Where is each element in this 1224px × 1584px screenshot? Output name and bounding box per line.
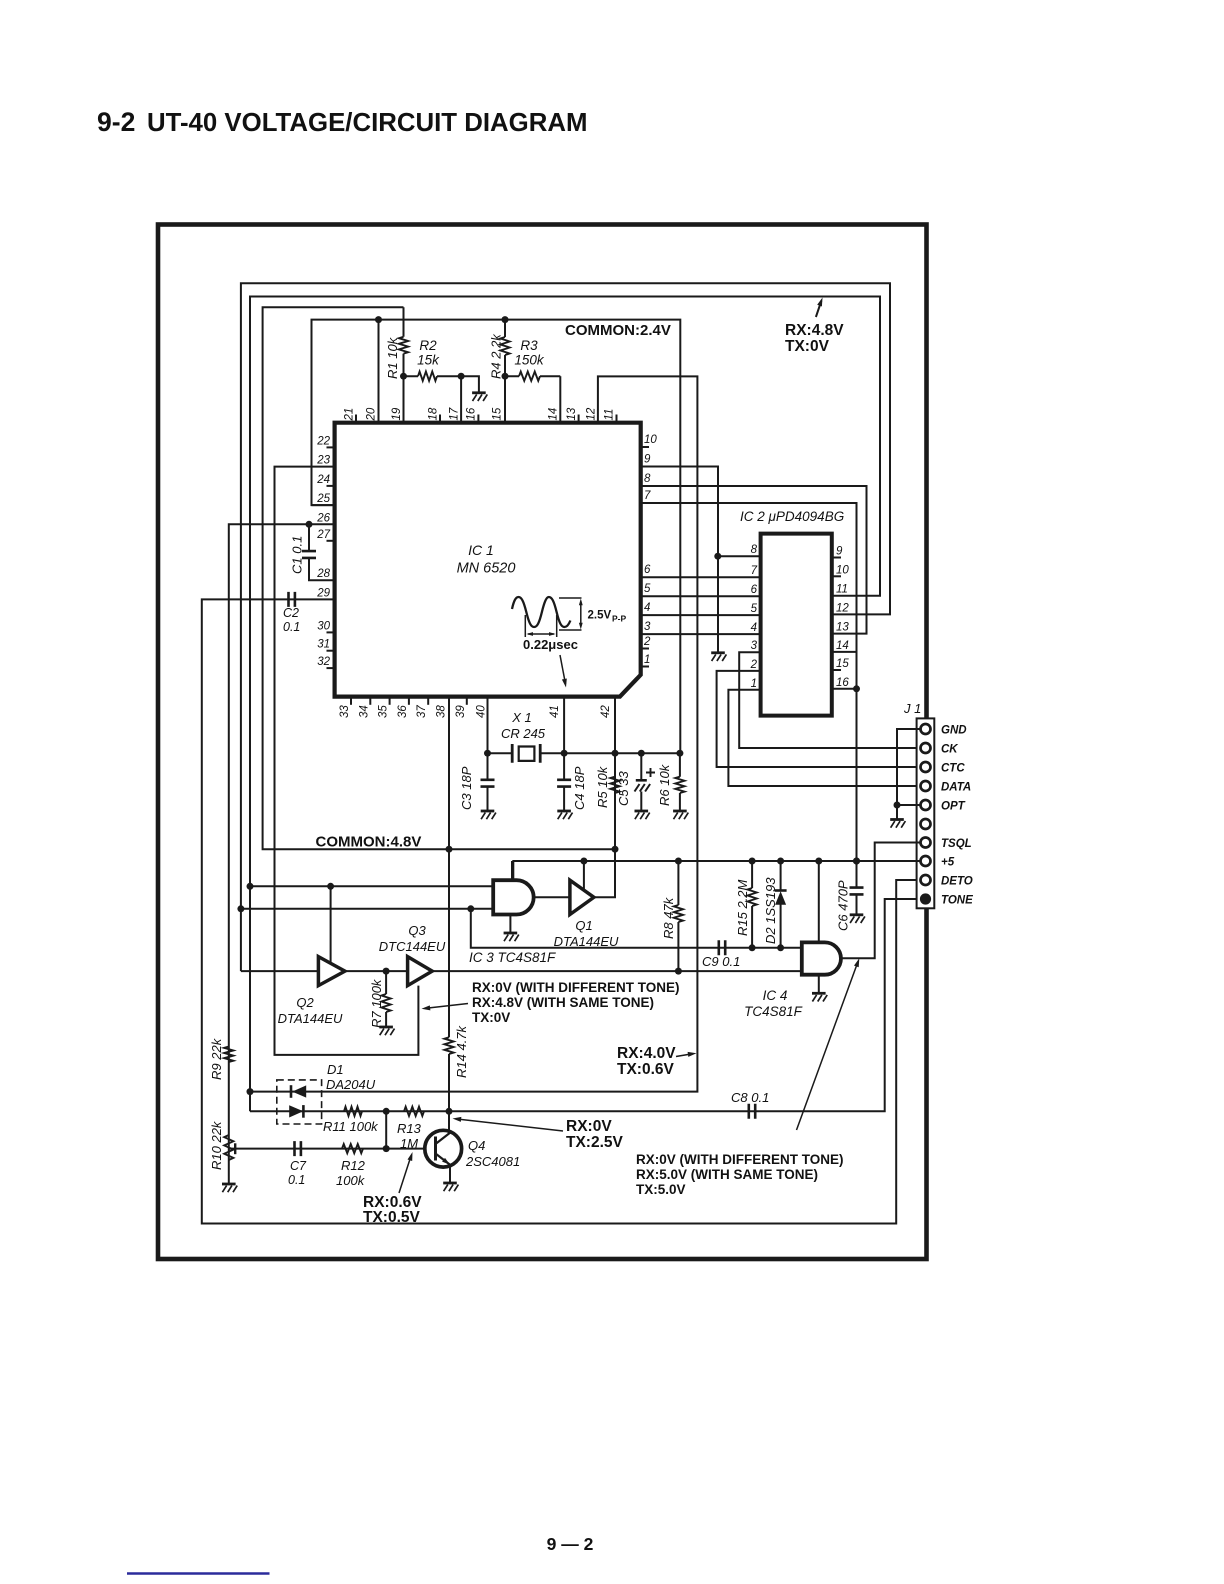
C7 value label xyxy=(288,1159,307,1187)
svg-text:12: 12 xyxy=(836,602,849,614)
junction IC2 pin16/+5 xyxy=(853,685,860,692)
svg-text:RX:5.0V (WITH SAME TONE): RX:5.0V (WITH SAME TONE) xyxy=(636,1167,818,1182)
svg-text:CTC: CTC xyxy=(941,763,965,775)
resistor R15 2.2M xyxy=(748,888,757,906)
svg-text:COMMON:4.8V: COMMON:4.8V xyxy=(316,834,422,851)
svg-text:C6 470P: C6 470P xyxy=(836,880,851,931)
J1 pin CK xyxy=(921,743,931,753)
connector J1 box xyxy=(917,718,935,908)
resistor R11 100k xyxy=(344,1107,362,1116)
wire TONE net (D1/R11/R13 line - C8 - J1 TONE) xyxy=(250,899,920,1111)
svg-text:9: 9 xyxy=(836,546,843,558)
J1 pin TSQL xyxy=(921,838,931,848)
pin 24 tick of IC1 xyxy=(327,485,335,487)
IC1 name label xyxy=(457,542,516,577)
J1 pin GND xyxy=(921,724,931,734)
svg-text:28: 28 xyxy=(316,568,330,580)
wire R5 body xyxy=(614,753,616,849)
junction D1 lines/loop2 xyxy=(247,1088,254,1095)
junction D2 top xyxy=(777,858,784,865)
svg-text:12: 12 xyxy=(586,407,598,420)
IC4 vdd stem xyxy=(818,861,820,942)
svg-text:DETO: DETO xyxy=(941,876,973,888)
svg-text:9-2: 9-2 xyxy=(97,107,135,137)
junction R4/R3/pin15 xyxy=(502,373,509,380)
junction R6 top xyxy=(676,750,683,757)
arrow from 0.22usec to pin41 xyxy=(560,655,566,684)
resistor R3 150k xyxy=(519,372,540,381)
Q4 name label xyxy=(465,1138,520,1169)
svg-text:C2: C2 xyxy=(283,606,299,620)
annotation bottom right tones xyxy=(636,1152,844,1197)
pin 42 wire of IC1 (common rail) to R5 and Q1 output xyxy=(614,697,616,850)
svg-text:6: 6 xyxy=(751,584,758,596)
IC2 pin 8 stub xyxy=(718,555,761,557)
svg-text:TX:0.5V: TX:0.5V xyxy=(363,1209,421,1226)
svg-text:2: 2 xyxy=(643,636,651,648)
svg-text:R10 22k: R10 22k xyxy=(209,1120,224,1170)
IC4 name label xyxy=(744,988,803,1019)
junction D2 bottom xyxy=(777,944,784,951)
IC2 pin 9 tick xyxy=(832,557,841,559)
R3 label xyxy=(514,338,545,368)
pin 38 wire of IC1 down to R14 xyxy=(448,697,450,850)
svg-text:4: 4 xyxy=(751,622,757,634)
svg-text:6: 6 xyxy=(644,564,651,576)
IC U2 (IC2 uPD4094BG) body xyxy=(761,534,832,716)
svg-text:11: 11 xyxy=(604,409,616,421)
junction R1/R2/pin19 xyxy=(400,373,407,380)
resistor R10 22k xyxy=(224,1135,233,1160)
svg-text:40: 40 xyxy=(476,705,488,718)
wire IC1-pin23 to Q3 emitter xyxy=(275,467,419,1055)
capacitor C8 0.1 xyxy=(749,1104,755,1119)
diode D2 1SS193 xyxy=(780,861,782,948)
IC2 pin 10 tick xyxy=(832,575,841,577)
svg-text:42: 42 xyxy=(600,705,612,718)
junction R15 top xyxy=(749,858,756,865)
svg-text:18: 18 xyxy=(428,407,440,420)
annotation RX:0V TX:2.5V xyxy=(566,1118,624,1151)
svg-text:C3 18P: C3 18P xyxy=(459,766,474,810)
diode pack D1 DA204U dashed box xyxy=(277,1080,322,1124)
svg-text:4: 4 xyxy=(644,602,650,614)
capacitor C4 18P xyxy=(557,780,571,787)
wire Q2 input line xyxy=(241,970,319,972)
page number 9-2 xyxy=(547,1534,594,1554)
wire net IC2-pin11 loop (top loop 2) to D1 lines xyxy=(250,297,880,1112)
ground at J1 OPT xyxy=(890,820,905,828)
svg-text:1M: 1M xyxy=(400,1136,418,1151)
svg-text:R7 100k: R7 100k xyxy=(369,978,384,1028)
wire R6 body xyxy=(679,753,681,810)
transistor Q4 2SC4081 xyxy=(425,1130,462,1167)
annotation RX:4.0V TX:0.6V xyxy=(617,1045,676,1078)
svg-text:IC 2 μPD4094BG: IC 2 μPD4094BG xyxy=(740,509,844,524)
junction rail2/loop2 xyxy=(247,883,254,890)
pin 35 tick of IC1 xyxy=(389,697,391,705)
wire X1 row xyxy=(488,752,565,754)
pin 4 wire of IC1 to IC2 pin5 xyxy=(641,614,761,616)
arrow to Q3 emitter box xyxy=(426,1004,468,1009)
capacitor C7 0.1 xyxy=(295,1141,301,1156)
svg-text:CK: CK xyxy=(941,744,958,756)
pin 10 tick of IC1 xyxy=(641,446,649,448)
svg-text:CR 245: CR 245 xyxy=(501,726,546,741)
svg-text:TC4S81F: TC4S81F xyxy=(744,1004,803,1019)
svg-text:MN 6520: MN 6520 xyxy=(457,561,516,577)
svg-text:15: 15 xyxy=(492,407,504,420)
pin 39 tick of IC1 xyxy=(466,697,468,705)
svg-text:20: 20 xyxy=(366,407,378,421)
annotation RX:0.6V TX:0.5V xyxy=(363,1194,422,1226)
wire IC1-pin12 net (loop 5) down to D1 line xyxy=(250,376,697,1091)
junction OPT/GND ground xyxy=(894,802,901,809)
svg-text:14: 14 xyxy=(548,408,560,421)
J1 pin DATA xyxy=(921,781,931,791)
junction R7 top xyxy=(383,968,390,975)
svg-text:31: 31 xyxy=(317,639,330,651)
svg-text:1: 1 xyxy=(644,654,650,666)
wire OPT ground stem xyxy=(896,805,898,819)
svg-text:29: 29 xyxy=(316,587,330,599)
svg-text:RX:0V (WITH DIFFERENT TONE): RX:0V (WITH DIFFERENT TONE) xyxy=(472,980,680,995)
junction IC4 vdd/+5 xyxy=(815,858,822,865)
arrow to Q4 collector junction xyxy=(457,1119,563,1131)
IC4 gnd stem xyxy=(818,975,820,993)
svg-text:DA204U: DA204U xyxy=(326,1077,376,1092)
wire rail to IC3 input A xyxy=(250,885,493,887)
svg-text:IC 3 TC4S81F: IC 3 TC4S81F xyxy=(469,950,556,965)
Q2 name label xyxy=(278,995,343,1026)
wire R15 body xyxy=(751,861,753,948)
junction R8 top xyxy=(675,858,682,865)
svg-text:0.22μsec: 0.22μsec xyxy=(523,637,578,652)
svg-text:R1 10k: R1 10k xyxy=(385,336,400,379)
C2 value label xyxy=(283,606,300,634)
wire J1 GND to ground/OPT xyxy=(897,729,921,805)
svg-text:C7: C7 xyxy=(290,1159,307,1173)
J1 pin TONE xyxy=(920,893,931,904)
junction C6 top xyxy=(853,858,860,865)
wire R4 body xyxy=(504,320,506,377)
svg-text:8: 8 xyxy=(751,544,758,556)
svg-text:R2: R2 xyxy=(419,338,437,353)
junction Q1 stem/+5 rail xyxy=(580,858,587,865)
svg-text:16: 16 xyxy=(466,407,478,420)
J1 pin NC xyxy=(921,819,931,829)
svg-text:RX:4.0V: RX:4.0V xyxy=(617,1045,676,1062)
svg-text:17: 17 xyxy=(449,407,461,420)
svg-text:DATA: DATA xyxy=(941,782,971,794)
junction rail3/loop1 xyxy=(237,905,244,912)
ground of R7 xyxy=(379,1027,394,1035)
Q1 name label xyxy=(554,918,619,949)
ground of Q4 xyxy=(443,1183,458,1191)
pin 13 tick of IC1 xyxy=(578,415,580,423)
svg-text:3: 3 xyxy=(751,640,758,652)
svg-text:DTC144EU: DTC144EU xyxy=(379,939,446,954)
wire IC2 pin16 stub xyxy=(832,688,857,690)
wire +5 rail J1 to IC3 xyxy=(513,861,921,880)
pin 32 tick of IC1 xyxy=(327,667,335,669)
junction rail3/C9 branch xyxy=(467,905,474,912)
junction rail2/Q2 stem xyxy=(327,883,334,890)
svg-text:TX:0V: TX:0V xyxy=(785,338,830,355)
svg-text:8: 8 xyxy=(644,473,651,485)
svg-text:34: 34 xyxy=(358,705,370,718)
svg-text:1: 1 xyxy=(751,678,757,690)
IC2 pin 1 wire to J1 DATA xyxy=(728,690,920,786)
wire R2 to ground xyxy=(461,376,479,392)
arrow to pin12 net vertical xyxy=(676,1054,693,1057)
svg-text:2SC4081: 2SC4081 xyxy=(465,1154,520,1169)
svg-text:9 — 2: 9 — 2 xyxy=(547,1534,594,1554)
svg-text:19: 19 xyxy=(391,407,403,420)
pin 40 wire of IC1 to X1/C3 xyxy=(487,697,489,754)
arrow to loop2 top xyxy=(816,301,821,317)
wire rail to IC3 input B xyxy=(241,908,493,910)
svg-text:26: 26 xyxy=(316,512,330,524)
pin 14 wire of IC1 (R3 right) xyxy=(559,376,561,423)
svg-text:P-P: P-P xyxy=(612,614,627,624)
junction R8 bottom xyxy=(675,968,682,975)
svg-text:15k: 15k xyxy=(417,353,440,368)
svg-text:R14 4.7k: R14 4.7k xyxy=(454,1024,469,1078)
svg-text:41: 41 xyxy=(549,705,561,718)
buffer Q2 DTA144EU xyxy=(318,957,345,986)
diode D1 upper (pointing left) xyxy=(290,1085,293,1098)
ground of R10 xyxy=(222,1184,237,1192)
svg-text:24: 24 xyxy=(316,474,330,486)
arrow to Q4 base line xyxy=(399,1156,411,1193)
IC3 vdd stem xyxy=(511,861,513,880)
wire R1 body xyxy=(403,307,405,376)
pin 1 tick of IC1 xyxy=(641,666,649,668)
resistor R1 10k xyxy=(399,337,408,354)
wire COMMON 4.8V rail (loop 3) xyxy=(263,307,615,849)
pin 27 tick of IC1 xyxy=(327,540,335,542)
wire IC3 out to Q1 xyxy=(534,896,570,898)
svg-text:7: 7 xyxy=(644,490,651,502)
svg-text:C5 33: C5 33 xyxy=(616,771,631,806)
pin 19 wire of IC1 (R1 bottom) xyxy=(403,376,405,423)
C5 plus sign xyxy=(646,768,655,777)
wire Q1 output to 4.8V node xyxy=(594,849,615,897)
D1 name label xyxy=(326,1062,376,1092)
Q4 collector wire xyxy=(448,1111,450,1133)
svg-text:IC 1: IC 1 xyxy=(468,542,494,558)
J1 pin CTC xyxy=(921,762,931,772)
svg-text:Q4: Q4 xyxy=(468,1138,485,1153)
svg-text:R9 22k: R9 22k xyxy=(209,1037,224,1080)
Q1 base stem xyxy=(583,861,585,890)
svg-text:10: 10 xyxy=(836,564,849,576)
ground at pin16 area xyxy=(472,393,487,401)
gate IC3 TC4S81F (AND) xyxy=(493,880,533,914)
wire R7 body xyxy=(385,971,387,1026)
svg-text:13: 13 xyxy=(566,407,578,420)
svg-text:R3: R3 xyxy=(520,338,538,353)
IC2 pin 3 wire to J1 CK xyxy=(739,652,920,748)
svg-text:39: 39 xyxy=(455,705,467,718)
waveform 0.22usec measure xyxy=(525,615,556,637)
decorative blue line xyxy=(127,1572,270,1575)
svg-text:C4 18P: C4 18P xyxy=(572,766,587,810)
R2 label xyxy=(417,338,440,368)
junction C5 top xyxy=(638,750,645,757)
junction R12/Q4 base xyxy=(383,1145,390,1152)
junction pin26/C1 xyxy=(306,521,313,528)
resistor R8 47k xyxy=(674,905,683,922)
wire J1 TSQL to IC4 output xyxy=(841,843,921,959)
Q3 name label xyxy=(379,923,446,954)
svg-text:25: 25 xyxy=(316,493,330,505)
svg-text:X 1: X 1 xyxy=(511,710,532,725)
svg-text:30: 30 xyxy=(317,620,330,632)
junction X1 left/C3/pin40 xyxy=(484,750,491,757)
svg-text:UT-40 VOLTAGE/CIRCUIT DIAGRAM: UT-40 VOLTAGE/CIRCUIT DIAGRAM xyxy=(147,109,587,137)
wire C7 line junction tick xyxy=(234,1143,236,1154)
svg-text:22: 22 xyxy=(316,435,330,447)
waveform 2.5Vp-p measure lines xyxy=(559,598,582,630)
wire C9 branch to IC4 input A xyxy=(471,909,802,948)
wire net IC2-pin12 loop (top loop 1) xyxy=(241,283,890,971)
svg-text:R4 2.2k: R4 2.2k xyxy=(489,333,504,379)
wire C7 line to Q4 base xyxy=(229,1148,425,1150)
pin 7 wire of IC1 (+5 net) to IC2 pin14/pin16 and C6 xyxy=(641,503,857,887)
waveform 2.5Vp-p label xyxy=(588,610,627,624)
resistor R14 4.7k xyxy=(444,1037,453,1054)
svg-text:R13: R13 xyxy=(397,1121,422,1136)
junction IC2 pin8 node xyxy=(714,553,721,560)
pin 15 wire of IC1 (R4 bottom) xyxy=(504,376,506,423)
resistor R9 22k xyxy=(224,1047,233,1062)
wire IC2 pin14 stub xyxy=(832,651,857,653)
pin 30 tick of IC1 xyxy=(327,631,335,633)
pin 21 tick of IC1 xyxy=(355,415,357,423)
junction pin20/2.4V rail xyxy=(375,316,382,323)
junction R15 bottom xyxy=(749,944,756,951)
outer border frame xyxy=(158,225,927,1260)
wire C6 lower lead xyxy=(856,894,858,914)
pin 3 wire of IC1 to IC2 pin4 xyxy=(641,633,761,635)
wire R14 body xyxy=(448,849,450,1111)
pin 25 wire of IC1 xyxy=(312,504,335,506)
svg-text:5: 5 xyxy=(751,603,758,615)
svg-text:+5: +5 xyxy=(941,857,955,869)
Q4 emitter wire xyxy=(449,1165,451,1183)
svg-text:37: 37 xyxy=(416,705,428,718)
crystal X1 CR245 xyxy=(512,744,540,763)
svg-text:TONE: TONE xyxy=(941,895,973,907)
ground of C6 xyxy=(850,915,865,923)
wire R8 body xyxy=(677,861,679,971)
pin 36 tick of IC1 xyxy=(408,697,410,705)
wire C3 leads xyxy=(487,753,489,810)
annotation RX:4.8V TX:0V xyxy=(785,322,844,355)
svg-text:IC 4: IC 4 xyxy=(763,988,788,1003)
svg-text:RX:4.8V: RX:4.8V xyxy=(785,322,844,339)
pin 18 tick of IC1 xyxy=(439,415,441,423)
svg-text:0.1: 0.1 xyxy=(288,1173,305,1187)
arrow to TSQL corner xyxy=(797,963,858,1130)
svg-text:35: 35 xyxy=(378,705,390,718)
svg-text:Q1: Q1 xyxy=(575,918,592,933)
buffer Q3 DTC144EU xyxy=(408,957,433,986)
capacitor C6 470P xyxy=(850,888,864,895)
svg-text:C1 0.1: C1 0.1 xyxy=(290,536,305,574)
svg-text:D1: D1 xyxy=(327,1062,344,1077)
ground at IC2 pin8 net xyxy=(711,653,726,661)
junction +5 rail at pin7 net xyxy=(853,858,860,865)
svg-text:R8 47k: R8 47k xyxy=(661,896,676,939)
svg-text:3: 3 xyxy=(644,621,651,633)
pin 22 tick of IC1 xyxy=(327,446,335,448)
wire Q2 collector stem xyxy=(330,886,332,963)
svg-text:10: 10 xyxy=(644,434,657,446)
svg-text:100k: 100k xyxy=(336,1173,366,1188)
svg-text:D2 1SS193: D2 1SS193 xyxy=(763,877,778,944)
pin 6 wire of IC1 to IC2 pin7 xyxy=(641,576,761,578)
svg-text:23: 23 xyxy=(316,455,330,467)
svg-text:J 1: J 1 xyxy=(903,701,921,716)
wire C4 leads xyxy=(563,753,565,810)
R12 label xyxy=(336,1158,366,1188)
svg-text:Q2: Q2 xyxy=(296,995,314,1010)
wire Q2 to Q3 xyxy=(345,970,408,972)
svg-text:OPT: OPT xyxy=(941,801,966,813)
svg-text:C8 0.1: C8 0.1 xyxy=(731,1090,769,1105)
junction R2/pin17 xyxy=(458,373,465,380)
J1 pin OPT xyxy=(921,800,931,810)
pin 8 wire of IC1 to IC2 pin13 xyxy=(641,486,867,634)
capacitor C5 33 electrolytic xyxy=(636,779,647,782)
resistor R6 10k xyxy=(675,777,684,793)
junction R5 top xyxy=(612,750,619,757)
pin 17 wire of IC1 xyxy=(460,376,462,423)
IC2 pin 15 tick xyxy=(832,669,841,671)
svg-text:R12: R12 xyxy=(341,1158,366,1173)
svg-text:DTA144EU: DTA144EU xyxy=(278,1011,343,1026)
wire C1 leads xyxy=(309,524,335,580)
capacitor C1 0.1 xyxy=(302,551,316,558)
wire R10 to ground xyxy=(228,1176,230,1184)
svg-text:13: 13 xyxy=(836,622,849,634)
svg-text:TSQL: TSQL xyxy=(941,838,972,850)
junction R4/2.4V rail xyxy=(502,316,509,323)
pin 2 tick of IC1 xyxy=(641,648,649,650)
wire DETO loop (J1 DETO - bottom - C2 - IC1 pin29) xyxy=(202,599,921,1223)
resistor R12 100k xyxy=(342,1144,363,1153)
svg-text:R11 100k: R11 100k xyxy=(323,1119,379,1134)
svg-text:36: 36 xyxy=(397,705,409,718)
pin 20 wire of IC1 to 2.4V rail xyxy=(378,320,380,423)
annotation RX/TX with different tone (IC3) xyxy=(472,980,680,1025)
junction 4.8V/R5/pin42/Q1out xyxy=(612,846,619,853)
pin 34 tick of IC1 xyxy=(369,697,371,705)
ground at IC4 xyxy=(812,993,827,1001)
diode D1 lower (pointing right) xyxy=(302,1105,305,1118)
wire C4 to R5 to C5 to R6 row xyxy=(564,752,680,754)
IC U1 (IC1 MN6520) body xyxy=(335,423,641,697)
ground of R6 xyxy=(673,811,688,819)
svg-text:2: 2 xyxy=(750,659,758,671)
pin 5 wire of IC1 to IC2 pin6 xyxy=(641,595,761,597)
gate IC4 TC4S81F (AND) xyxy=(802,942,841,974)
J1 pin DETO xyxy=(921,875,931,885)
R13 label xyxy=(397,1121,422,1151)
